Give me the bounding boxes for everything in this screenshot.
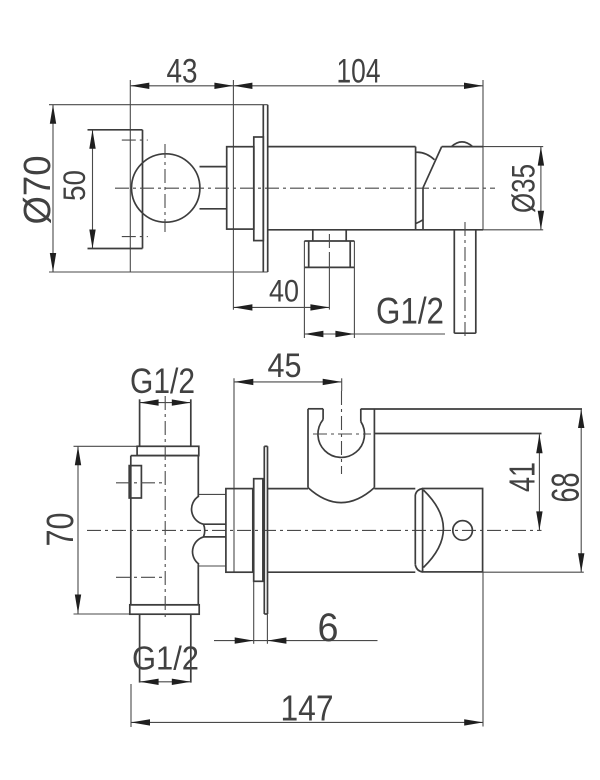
main axis centerline (plan) (87, 529, 542, 531)
dimension line 45 (234, 379, 341, 385)
dimension line 68 (483, 409, 585, 572)
ball arc (plan) (423, 490, 443, 568)
handle stem (200, 167, 227, 209)
svg-text:104: 104 (337, 53, 381, 91)
extension line 70 bottom (74, 613, 130, 615)
handle knob backplate (50 mm) (88, 130, 143, 249)
outlet cone section (416, 147, 483, 230)
svg-text:40: 40 (269, 273, 299, 309)
extension line wall plane (233, 378, 235, 572)
inlet pipe (plan) (140, 399, 191, 446)
dimension line 40 (233, 304, 329, 310)
dimension line 43/104 (130, 83, 483, 89)
svg-text:43: 43 (167, 53, 198, 91)
end piece box (plan) (423, 489, 483, 572)
svg-text:50: 50 (56, 170, 92, 201)
shower holder cup (plan) (308, 409, 374, 503)
extension line / wall plate right edge (232, 80, 234, 310)
dimension line 6 (214, 581, 378, 644)
neck fillets (plan) (415, 489, 422, 572)
mounting hole centerline upper (122, 139, 148, 141)
knob vertical centerline (164, 144, 166, 232)
svg-text:41: 41 (502, 462, 543, 492)
top collar (plan) (137, 446, 199, 455)
dimension line 147 (131, 572, 483, 727)
extension line holder center (341, 378, 343, 391)
dimension line 70 (75, 446, 81, 613)
wall plate (plan, edge-on) (264, 446, 267, 614)
holder bar (plan) (361, 409, 582, 434)
extension line / wall plate left edge (129, 80, 131, 272)
svg-text:70: 70 (40, 513, 82, 547)
leader line G1/2 (top view) (304, 331, 445, 337)
hand shower pipe (454, 230, 476, 333)
svg-text:68: 68 (545, 473, 588, 503)
main body (plan) bottom edge (267, 571, 415, 573)
cartridge housing (227, 147, 254, 229)
wall plate bottom edge with extension (49, 271, 268, 273)
handle knob circle (132, 154, 200, 222)
wall plate top edge with extension (49, 104, 268, 106)
holder cup centerlines (313, 391, 371, 474)
mounting hole centerline lower (122, 236, 148, 238)
main horizontal centerline (115, 187, 495, 189)
svg-text:Ø35: Ø35 (506, 164, 542, 213)
dimension line 41 (536, 434, 542, 530)
hole centerline upper (plan) (116, 482, 166, 484)
pipe centerline (464, 222, 466, 340)
set screw circle (453, 521, 473, 541)
bottom collar (plan) (130, 605, 199, 614)
outlet stub centerline (328, 234, 330, 310)
dimension line Ø35 (483, 147, 544, 230)
body vertical centerline (plan) (164, 396, 166, 620)
escutcheon ring (254, 137, 263, 241)
main body cylinder (268, 147, 483, 230)
extension line 70 top (74, 445, 138, 447)
svg-text:G1/2: G1/2 (130, 362, 195, 401)
svg-text:G1/2: G1/2 (376, 290, 444, 332)
hole centerline lower (plan) (116, 576, 166, 578)
threaded outlet stub G1/2 (304, 241, 354, 338)
screw boss (129, 466, 141, 498)
main body (plan) top edge (267, 488, 415, 490)
svg-text:Ø70: Ø70 (17, 156, 59, 225)
dimension line 50 (89, 130, 95, 249)
valve body (plan) (131, 456, 199, 605)
outlet stub neck (313, 230, 346, 241)
escutcheon ring (plan, edge-on) (254, 479, 263, 582)
holder hook bump (452, 142, 473, 147)
svg-text:147: 147 (281, 688, 334, 729)
dimension line Ø70 (50, 105, 56, 272)
escutcheon hub (plan) (226, 489, 253, 573)
supply bumps and neck (plan) (192, 494, 226, 566)
svg-text:G1/2: G1/2 (132, 640, 199, 677)
svg-text:45: 45 (268, 347, 302, 385)
svg-text:6: 6 (318, 606, 339, 650)
dimension line G1/2 bottom (140, 679, 191, 685)
outlet pipe (plan, bottom) (140, 614, 191, 682)
extension line / outlet right edge (482, 80, 484, 230)
wall escutcheon plate (edge-on) (263, 105, 267, 272)
dimension line G1/2 inlet (140, 399, 191, 405)
